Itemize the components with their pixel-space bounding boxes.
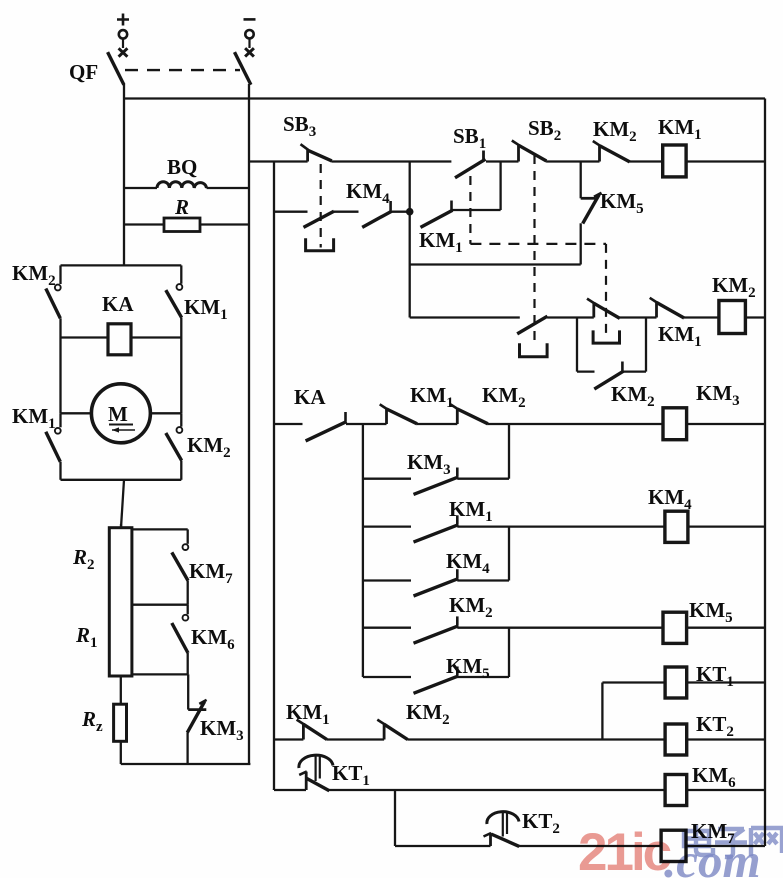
contactor contact KM3 (NO self-latch): [414, 468, 510, 495]
contactor contact KM1 (NO, rung6): [297, 720, 385, 740]
glyph 子: [715, 829, 747, 857]
svg-text:KM2: KM2: [593, 117, 637, 145]
junction node (dot): [406, 208, 414, 216]
svg-text:KT2: KT2: [696, 712, 734, 740]
wire rung2 horizontal: [410, 316, 520, 318]
svg-text:R2: R2: [72, 545, 95, 573]
wire middle tap: [132, 604, 188, 606]
contactor coil KM2: [719, 301, 765, 334]
wire tap top to KM7 branch: [132, 528, 188, 530]
svg-text:KM2: KM2: [712, 273, 756, 301]
wire rung3 from rail: [274, 423, 303, 425]
svg-text:KM6: KM6: [191, 625, 235, 653]
resistor R: [124, 218, 249, 232]
svg-text:KM5: KM5: [600, 189, 644, 217]
breaker QF: [108, 52, 251, 85]
wire rung4b line: [363, 579, 411, 581]
svg-text:21ic: 21ic: [578, 823, 671, 878]
relay contact KA (NO, rung3): [306, 412, 387, 441]
wire rung5 line: [363, 627, 411, 629]
svg-text:KM2: KM2: [187, 433, 231, 461]
wire rung1 feed from negative rail: [249, 160, 308, 162]
svg-text:KT1: KT1: [696, 662, 734, 690]
wire bottom bus of power circuit: [121, 763, 251, 765]
contactor contact KM5 (NC, on branch from rung1): [581, 162, 602, 265]
timer coil KT2: [665, 724, 765, 755]
svg-text:R1: R1: [75, 623, 98, 651]
watermark 21ic.com 电子网: [578, 823, 782, 878]
contactor contact KM2 (H-bridge bottom-right): [166, 413, 183, 480]
svg-text:KM7: KM7: [189, 559, 233, 587]
timer coil KT1: [602, 667, 765, 740]
svg-text:KM2: KM2: [482, 383, 526, 411]
svg-text:KA: KA: [294, 385, 326, 409]
svg-text:KM1: KM1: [286, 700, 330, 728]
pushbutton SB1 lower NC contact with release: [587, 299, 657, 344]
contactor contact KM2 (NO self-latch, rung2): [594, 318, 646, 390]
wire KM2 latch loop left/bottom: [577, 318, 595, 372]
wire rung3 sub-branch vertical x363: [362, 424, 364, 677]
contactor contact KM2 (NC, rung3): [451, 404, 664, 424]
wire rung8 line: [395, 845, 491, 847]
contactor contact KM6: [172, 605, 189, 675]
wire rung3b line: [363, 478, 411, 480]
wire center feed to resistor bank: [121, 480, 124, 528]
svg-text:Rz: Rz: [81, 707, 103, 735]
svg-text:KM5: KM5: [446, 654, 490, 682]
svg-text:R: R: [174, 195, 189, 219]
svg-text:SB2: SB2: [528, 116, 561, 144]
timer delayed contact KT1: [299, 755, 665, 791]
contactor contact KM1 (H-bridge top-right): [166, 265, 183, 413]
wire rung7 from rail corner: [274, 789, 306, 790]
wire top bus: [124, 97, 765, 99]
contactor contact KM1 (NO, self-latch of rung1): [421, 162, 501, 228]
contactor contact KM3 (shorting contact): [187, 674, 206, 764]
wire bottom tap: [132, 673, 188, 675]
wire branch vertical at x410: [409, 162, 411, 318]
resistor R2 R1 (tapped starting resistor): [109, 524, 132, 676]
svg-text:KM1: KM1: [449, 497, 493, 525]
contactor contact KM1 (NC interlock, rung2): [650, 298, 719, 318]
contactor contact KM2 (NO, rung5): [414, 616, 664, 643]
contactor coil KM3: [663, 408, 765, 440]
svg-text:KM1: KM1: [410, 383, 454, 411]
svg-text:QF: QF: [69, 60, 98, 84]
wire latch return vertical x509 (rung4b): [508, 527, 510, 581]
mechanical link SB3 (dashed): [320, 164, 322, 248]
inductor BQ: [124, 182, 249, 188]
svg-text:KT1: KT1: [332, 761, 370, 789]
relay coil KA: [61, 324, 182, 355]
svg-text:KM4: KM4: [648, 485, 692, 513]
contactor coil KM5: [663, 612, 765, 643]
svg-text:M: M: [108, 402, 128, 426]
wire rung5b line: [363, 676, 411, 678]
svg-text:KM4: KM4: [346, 179, 390, 207]
glyph 网: [751, 828, 782, 856]
glyph 电: [684, 825, 713, 855]
svg-text:KA: KA: [102, 292, 134, 316]
wire H-bridge bottom bus: [61, 479, 182, 481]
svg-text:KM6: KM6: [692, 763, 736, 791]
contactor contact KM1 (NO, rung4): [414, 515, 665, 542]
wire right rail from QF down to bottom bus: [248, 84, 250, 764]
contactor coil KM6: [665, 775, 765, 806]
svg-text:KM2: KM2: [12, 261, 56, 289]
wire left rail from QF down to H-bridge: [123, 84, 125, 265]
timer delayed contact KT2: [484, 812, 662, 847]
contactor contact KM5 (NO self-latch): [414, 667, 510, 694]
contactor contact KM7: [172, 529, 189, 604]
svg-text:KM3: KM3: [407, 450, 451, 478]
wire H-bridge top bus: [61, 264, 182, 266]
wire rung6 from rail: [274, 738, 303, 740]
svg-text:SB1: SB1: [453, 124, 486, 152]
wire latch return vertical x509 (rung5b): [508, 628, 510, 677]
pushbutton SB3 (NC contact): [301, 144, 452, 161]
pushbutton SB1 (NO contact): [455, 151, 519, 178]
contactor contact KM4 (NO self-latch): [414, 569, 510, 596]
svg-text:KM3: KM3: [696, 381, 740, 409]
wire branch bottom y264: [410, 263, 581, 265]
resistor Rz: [114, 676, 127, 764]
wire right rail of control ladder: [764, 99, 766, 847]
contactor contact KM1 (H-bridge bottom-left): [46, 413, 61, 480]
svg-text:KM3: KM3: [200, 716, 244, 744]
wire rung8 drop from rung7: [394, 790, 396, 846]
wire control left rail: [273, 162, 275, 791]
svg-text:KM5: KM5: [689, 598, 733, 626]
contactor contact KM2 (H-bridge top-left): [46, 265, 61, 337]
wire rung2 mid: [577, 316, 594, 318]
svg-text:KT2: KT2: [522, 809, 560, 837]
contactor coil KM4: [665, 511, 765, 542]
wire rung4 line: [363, 525, 411, 527]
pushbutton SB3 lower NO contact: [304, 211, 359, 251]
svg-text:BQ: BQ: [167, 155, 197, 179]
svg-text:KM4: KM4: [446, 549, 490, 577]
pushbutton SB2 (NC contact): [512, 141, 600, 162]
svg-text:KM2: KM2: [611, 382, 655, 410]
wire latch return vertical x509 (rung3b): [508, 424, 510, 479]
terminal - (negative supply): [244, 19, 256, 56]
terminal + (positive supply): [117, 14, 129, 57]
svg-text:KM1: KM1: [658, 322, 702, 350]
contactor contact KM2 (NC interlock, rung 1): [593, 141, 663, 162]
contactor contact KM2 (NO, rung6): [377, 720, 665, 740]
svg-text:KM1: KM1: [419, 228, 463, 256]
svg-text:KM2: KM2: [406, 700, 450, 728]
wire latch branch line y212: [274, 211, 308, 213]
svg-text:KM2: KM2: [449, 593, 493, 621]
contactor coil KM7: [661, 830, 765, 861]
svg-text:KM1: KM1: [12, 404, 56, 432]
contactor coil KM1: [663, 145, 765, 177]
contactor contact KM4 (NO, latch branch): [362, 201, 410, 227]
mechanical link SB2 (dashed): [533, 155, 535, 344]
pushbutton SB2 lower NO contact with release: [517, 316, 577, 357]
svg-text:KM1: KM1: [184, 295, 228, 323]
svg-text:KM1: KM1: [658, 115, 702, 143]
motor M: [61, 384, 182, 443]
contactor contact KM1 (NC, rung3): [380, 404, 458, 424]
svg-text:SB3: SB3: [283, 112, 316, 140]
mechanical link SB1 (dashed, down and right to its lower contact): [469, 176, 471, 244]
wire H-bridge left column: [59, 338, 61, 414]
